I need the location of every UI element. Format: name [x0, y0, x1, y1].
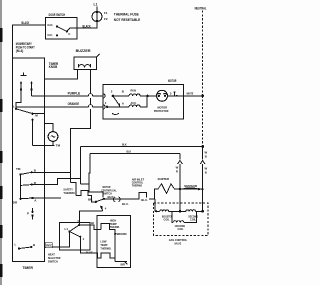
svg-text:COIL: COIL — [178, 227, 184, 231]
svg-text:DOOR SWITCH: DOOR SWITCH — [49, 13, 66, 17]
svg-text:THERMO.: THERMO. — [63, 191, 75, 195]
svg-text:BR.: BR. — [88, 198, 93, 202]
svg-text:L1: L1 — [65, 227, 69, 231]
svg-text:R: R — [176, 169, 178, 173]
svg-text:WHITE: WHITE — [187, 91, 194, 95]
svg-text:RUN: RUN — [131, 88, 137, 92]
svg-text:BUZZER: BUZZER — [76, 49, 91, 53]
svg-text:BLK: BLK — [122, 142, 127, 146]
svg-text:COIL: COIL — [164, 217, 170, 221]
svg-text:F1: F1 — [104, 11, 108, 15]
svg-text:BLK: BLK — [127, 149, 132, 153]
svg-text:KNOB: KNOB — [49, 65, 58, 69]
svg-text:B: B — [205, 154, 207, 158]
svg-text:B: B — [205, 170, 207, 174]
svg-text:P: P — [27, 212, 29, 216]
svg-text:BLACK: BLACK — [22, 21, 30, 25]
svg-text:L1: L1 — [94, 3, 98, 7]
svg-text:F2: F2 — [104, 17, 108, 21]
svg-text:N.O.: N.O. — [48, 23, 54, 27]
svg-text:RED: RED — [46, 244, 53, 248]
svg-text:COIL: COIL — [190, 217, 196, 221]
svg-text:L: L — [15, 243, 17, 247]
svg-text:NOT RESETABLE: NOT RESETABLE — [114, 18, 141, 22]
svg-text:TM: TM — [56, 144, 61, 148]
svg-text:SWITCH: SWITCH — [48, 259, 58, 263]
svg-text:SENSOR: SENSOR — [184, 184, 198, 188]
svg-text:HI: HI — [91, 221, 94, 225]
svg-text:BLU.: BLU. — [141, 198, 148, 202]
svg-text:ORANGE: ORANGE — [68, 102, 80, 106]
svg-text:IGNITER: IGNITER — [158, 177, 170, 181]
svg-text:N.C.: N.C. — [48, 33, 54, 37]
svg-text:BLUE: BLUE — [86, 250, 93, 254]
svg-text:VALVE: VALVE — [174, 242, 181, 246]
svg-text:TIMER: TIMER — [22, 266, 33, 270]
svg-text:THERM.: THERM. — [110, 225, 120, 229]
svg-text:NEUTRAL: NEUTRAL — [195, 7, 207, 11]
svg-text:PROTECTOR: PROTECTOR — [154, 109, 169, 113]
svg-text:L: L — [13, 105, 15, 109]
svg-text:BROWN: BROWN — [117, 232, 127, 236]
svg-text:THERMO: THERMO — [132, 184, 143, 188]
svg-text:BLU.: BLU. — [122, 202, 129, 206]
svg-text:THERMO.: THERMO. — [100, 246, 111, 250]
svg-text:(M-4): (M-4) — [16, 49, 23, 53]
svg-text:MOTOR: MOTOR — [168, 79, 177, 83]
svg-text:AUX.: AUX. — [131, 101, 137, 105]
svg-text:TM: TM — [16, 167, 21, 171]
svg-text:THERMAL FUSE: THERMAL FUSE — [114, 13, 140, 17]
svg-text:PURPLE: PURPLE — [68, 91, 81, 95]
svg-text:BLACK: BLACK — [83, 24, 92, 28]
